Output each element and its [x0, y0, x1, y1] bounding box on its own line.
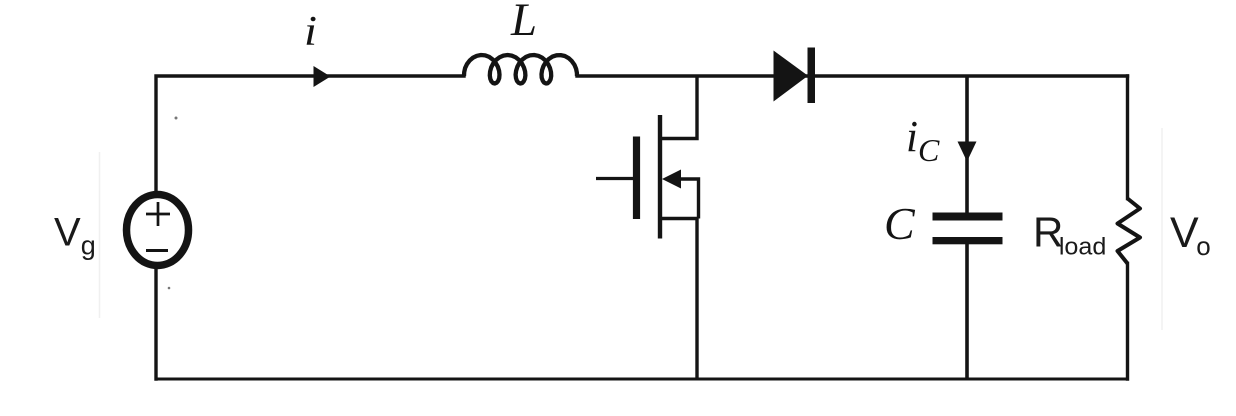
wire left rail lower: [154, 269, 157, 379]
transistor Q1 drain connection: [660, 76, 697, 139]
capacitor C bottom plate: [933, 237, 1003, 244]
svg-text:Vg: Vg: [54, 211, 96, 261]
transistor Q1 MOSFET gate lead: [596, 177, 633, 180]
transistor Q1 source connection: [660, 219, 697, 380]
svg-text:Vo: Vo: [1170, 209, 1211, 261]
current arrow i: [314, 66, 331, 87]
speck artifact 1: [175, 117, 178, 120]
voltage source Vg: [127, 195, 189, 266]
svg-text:L: L: [510, 0, 537, 46]
transistor Q1 body arrowhead: [662, 170, 681, 189]
svg-text:i: i: [304, 9, 317, 55]
wire right rail lower: [1126, 264, 1129, 380]
wire right rail upper: [1126, 76, 1129, 199]
diode D1 triangle: [774, 51, 809, 102]
transistor Q1 channel bar: [658, 115, 662, 239]
svg-text:C: C: [884, 198, 916, 249]
transistor Q1 body arrow line: [676, 179, 699, 219]
speck artifact 2: [168, 287, 171, 290]
textbox edge near Vo: [1161, 128, 1163, 330]
wire top rail right segment: [577, 74, 1128, 77]
inductor L: [464, 55, 577, 84]
resistor Rload zigzag: [1118, 199, 1141, 264]
svg-text:Rload: Rload: [1033, 209, 1106, 261]
capacitor current arrowhead iC: [958, 142, 977, 162]
diode D1 cathode bar: [808, 48, 816, 104]
capacitor C top plate: [933, 213, 1003, 221]
wire capacitor branch upper: [965, 76, 969, 213]
transistor Q1 gate bar: [633, 137, 640, 220]
textbox edge near Vg: [99, 152, 101, 318]
wire top rail left segment: [156, 76, 464, 191]
wire bottom rail: [156, 378, 1128, 381]
wire capacitor branch lower: [965, 244, 969, 379]
svg-text:i: i: [906, 112, 918, 161]
svg-text:C: C: [918, 132, 940, 168]
